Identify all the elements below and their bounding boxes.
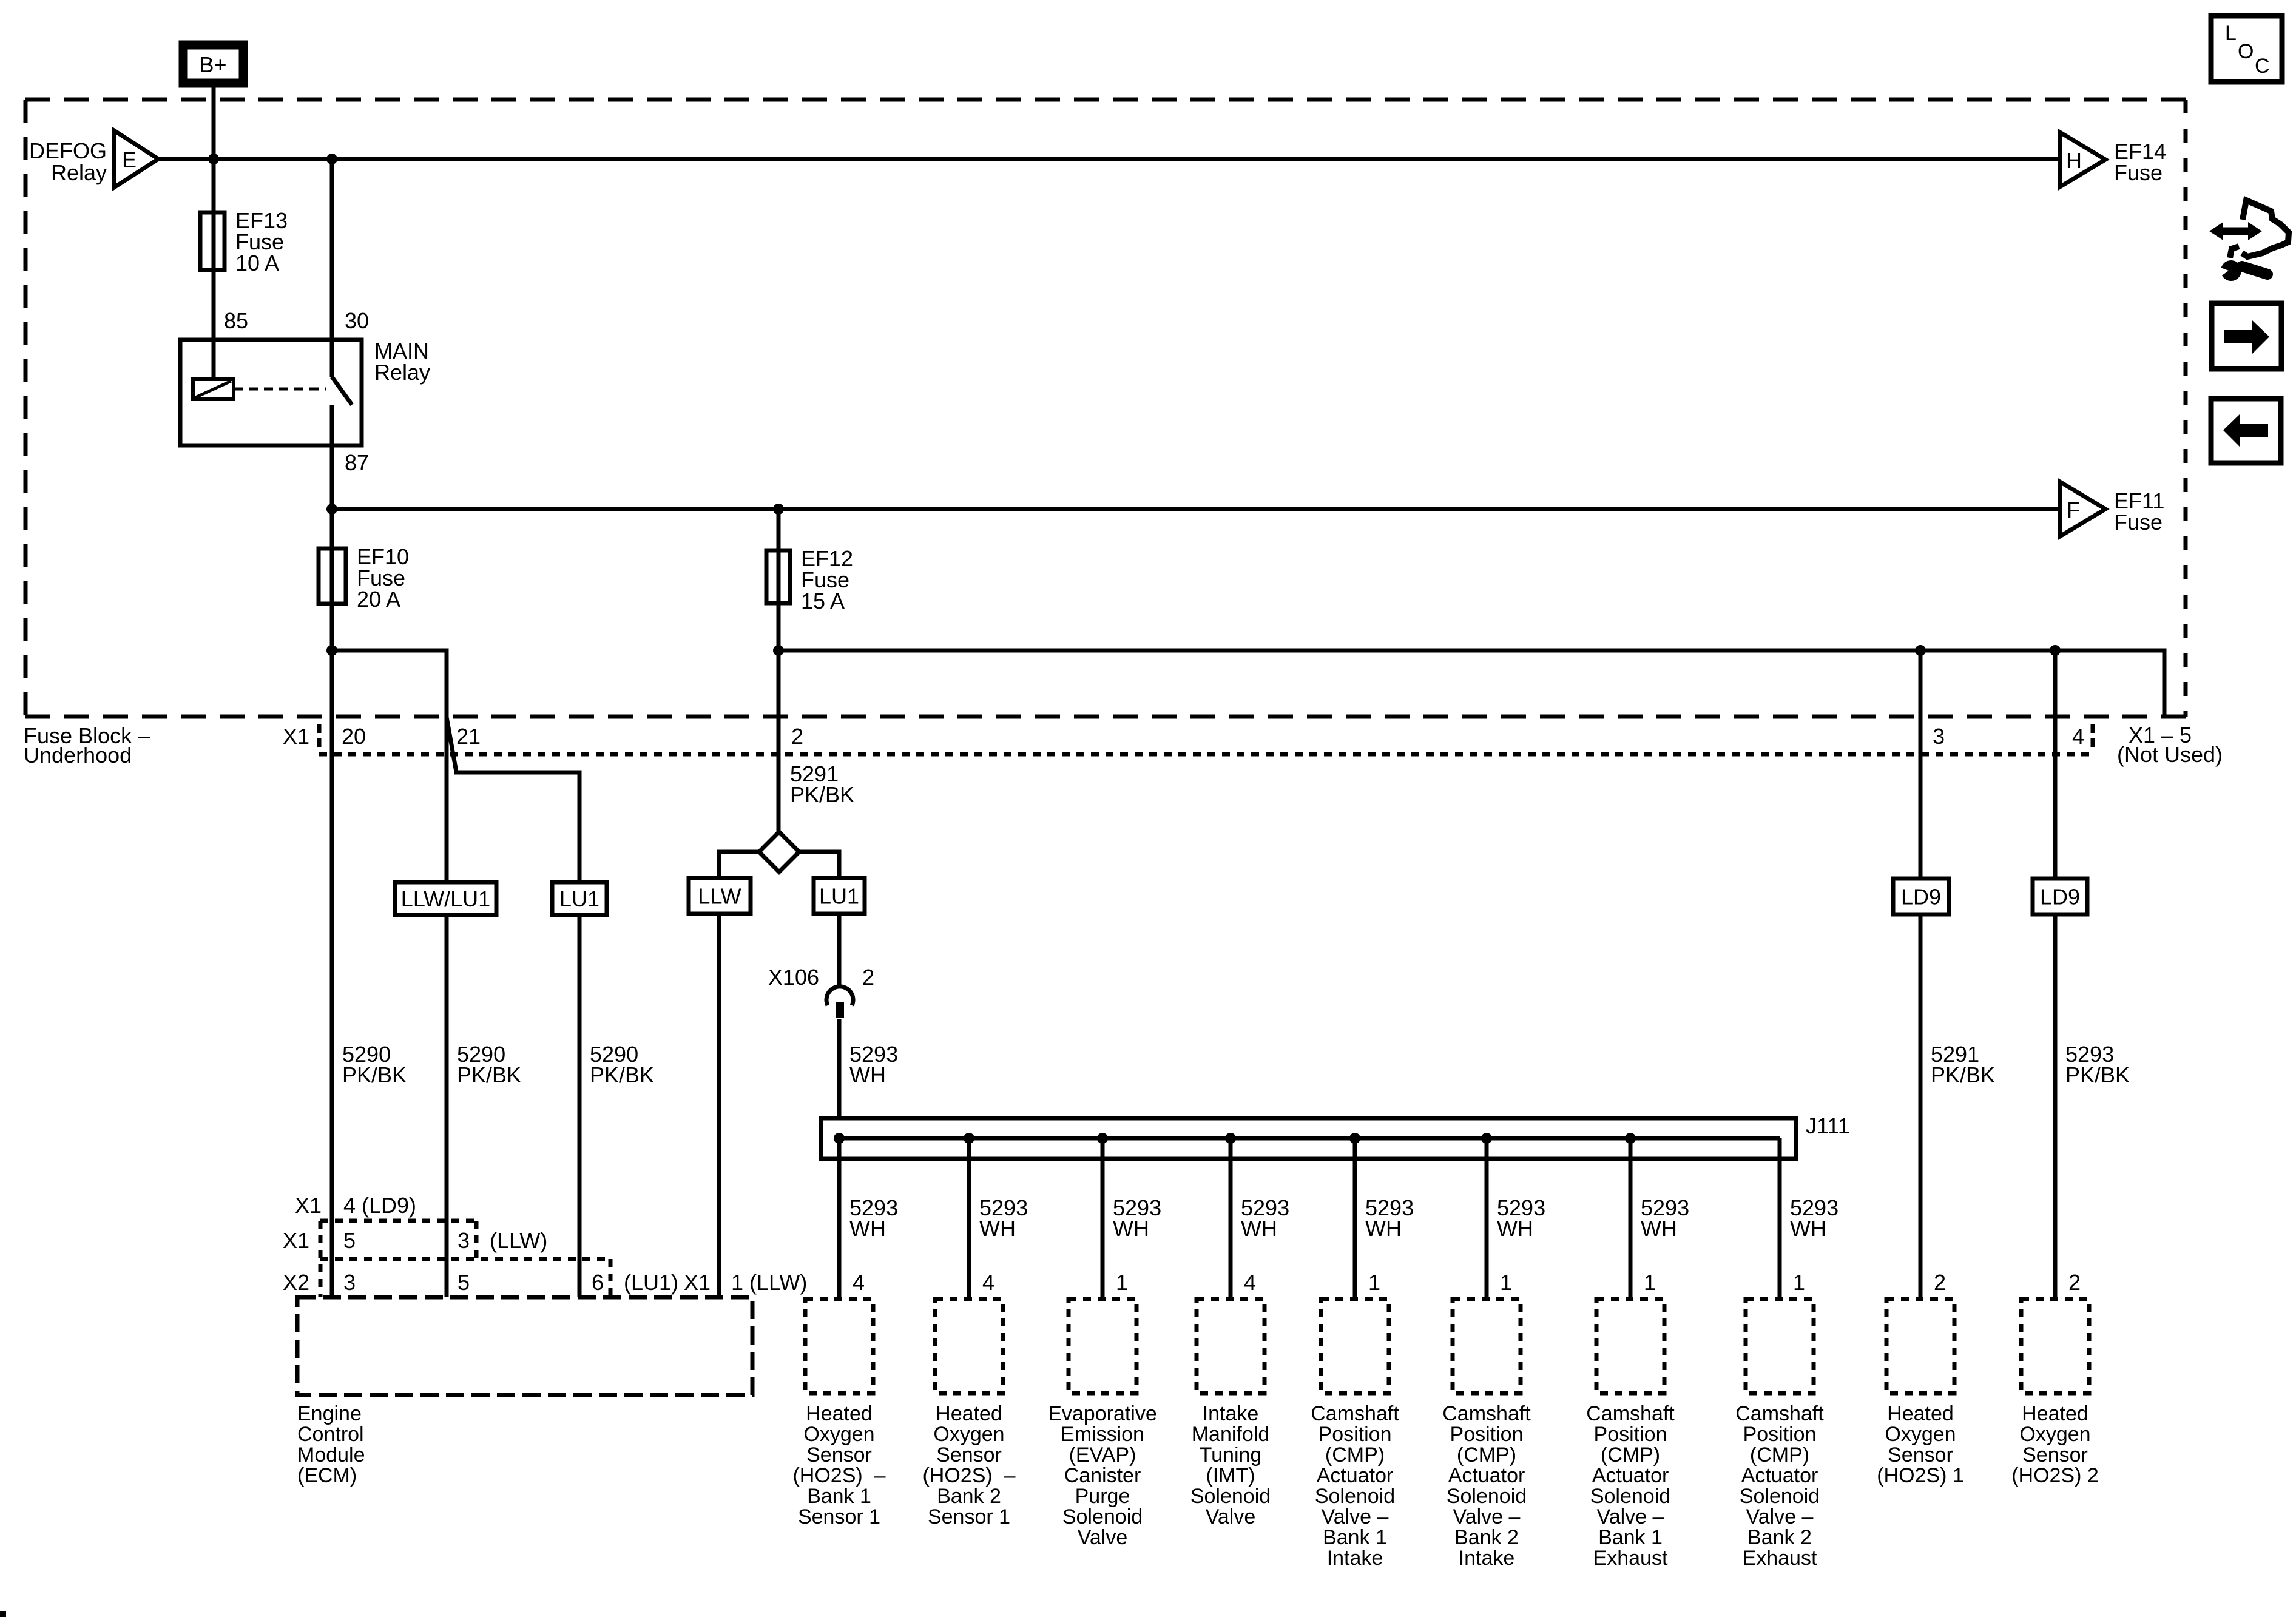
component CMP actuator bank2 intake <box>1442 1299 1531 1570</box>
svg-text:Valve: Valve <box>1078 1526 1128 1549</box>
node J111 tap 5 <box>1349 1133 1360 1144</box>
svg-text:Camshaft: Camshaft <box>1311 1402 1399 1425</box>
relay coil <box>193 379 234 399</box>
svg-text:PK/BK: PK/BK <box>590 1062 654 1087</box>
svg-text:Manifold: Manifold <box>1192 1423 1270 1446</box>
EF14 Fuse off-page reference H <box>2060 132 2166 187</box>
svg-text:Bank 1: Bank 1 <box>1323 1526 1387 1549</box>
svg-text:Actuator: Actuator <box>1317 1464 1394 1487</box>
svg-text:X106: X106 <box>768 965 819 990</box>
svg-text:PK/BK: PK/BK <box>2065 1062 2130 1087</box>
svg-text:Exhaust: Exhaust <box>1743 1547 1817 1570</box>
svg-text:1: 1 <box>1793 1270 1805 1295</box>
wire J111 tap at 2233 <box>1353 1138 1357 1299</box>
wire label LLW/LU1 <box>395 882 496 915</box>
wire J111 tap at 2450 <box>1485 1138 1489 1299</box>
svg-text:Actuator: Actuator <box>1741 1464 1818 1487</box>
wire label LLW <box>689 878 751 914</box>
svg-text:F: F <box>2067 498 2080 522</box>
wire J111 tap at 1597 <box>967 1138 971 1299</box>
svg-text:Evaporative: Evaporative <box>1048 1402 1157 1425</box>
svg-text:Heated: Heated <box>2022 1402 2088 1425</box>
svg-text:Oxygen: Oxygen <box>1885 1423 1956 1446</box>
wire B+ to relay coil pin 85 <box>212 87 216 379</box>
node J111 tap 1 <box>834 1133 845 1144</box>
component HO2S 2 <box>2011 1299 2099 1487</box>
svg-text:C: C <box>2255 55 2270 78</box>
svg-text:4 (LD9): 4 (LD9) <box>343 1193 416 1218</box>
svg-text:2: 2 <box>862 965 874 990</box>
component CMP actuator bank1 intake <box>1311 1299 1399 1570</box>
svg-text:Intake: Intake <box>1459 1547 1515 1570</box>
svg-text:4: 4 <box>2072 724 2084 749</box>
svg-text:3: 3 <box>343 1270 356 1295</box>
svg-text:WH: WH <box>1113 1216 1149 1241</box>
wire label 5290 PK/BK <box>590 1042 654 1087</box>
svg-text:Sensor: Sensor <box>1888 1443 1953 1467</box>
svg-text:85: 85 <box>224 308 248 333</box>
svg-text:Solenoid: Solenoid <box>1190 1485 1271 1508</box>
ECM connector rows <box>320 1221 610 1297</box>
hyperlink forward icon <box>2212 303 2281 369</box>
fuse EF12 15A <box>766 546 853 613</box>
svg-text:Actuator: Actuator <box>1592 1464 1669 1487</box>
node relay 30 tap <box>326 154 337 164</box>
svg-text:J111: J111 <box>1806 1113 1850 1138</box>
wire label 5293 WH <box>1497 1195 1545 1241</box>
svg-text:Solenoid: Solenoid <box>1740 1485 1820 1508</box>
svg-text:Camshaft: Camshaft <box>1586 1402 1675 1425</box>
svg-text:WH: WH <box>849 1216 886 1241</box>
svg-text:Exhaust: Exhaust <box>1593 1547 1668 1570</box>
wire splice to LLW <box>719 852 759 1297</box>
svg-text:O: O <box>2238 40 2254 63</box>
wire label 5293 PK/BK <box>2065 1042 2130 1087</box>
relay MAIN <box>180 308 430 475</box>
wire pin 21 double crimp diagonal <box>447 717 579 1297</box>
svg-text:Fuse: Fuse <box>2114 160 2163 185</box>
svg-text:Camshaft: Camshaft <box>1442 1402 1531 1425</box>
node EF10 output <box>326 645 337 656</box>
svg-text:Valve –: Valve – <box>1746 1505 1814 1528</box>
svg-text:15 A: 15 A <box>801 589 845 613</box>
svg-text:Solenoid: Solenoid <box>1590 1485 1670 1508</box>
ECM pin row X1-4 <box>295 1193 416 1218</box>
wire label 5290 PK/BK <box>342 1042 407 1087</box>
svg-text:5: 5 <box>458 1270 470 1295</box>
svg-text:Relay: Relay <box>374 360 430 385</box>
wire DEFOG relay to EF14 fuse <box>158 157 2060 161</box>
svg-text:L: L <box>2225 22 2237 45</box>
J111 internal bus bar <box>839 1136 1780 1141</box>
svg-text:Solenoid: Solenoid <box>1315 1485 1395 1508</box>
svg-text:Intake: Intake <box>1203 1402 1259 1425</box>
svg-text:PK/BK: PK/BK <box>342 1062 407 1087</box>
svg-text:X2: X2 <box>283 1270 309 1295</box>
wire pin 21 to LLW/LU1 and ECM X1-3 <box>445 717 449 1297</box>
svg-text:WH: WH <box>1241 1216 1277 1241</box>
svg-text:Heated: Heated <box>936 1402 1002 1425</box>
fuse block underhood dashed border <box>25 100 2186 717</box>
svg-text:Emission: Emission <box>1061 1423 1144 1446</box>
svg-text:LU1: LU1 <box>559 886 599 911</box>
svg-text:PK/BK: PK/BK <box>790 782 854 807</box>
wire label 5293 WH <box>1241 1195 1289 1241</box>
node EF12 tap <box>773 504 784 515</box>
hyperlink back icon <box>2211 399 2281 463</box>
wire label LU1 a <box>552 882 607 915</box>
EF11 Fuse off-page reference F <box>2060 482 2164 536</box>
svg-text:Oxygen: Oxygen <box>803 1423 874 1446</box>
wire J111 tap at 2687 <box>1629 1138 1633 1299</box>
node J111 tap 2 <box>964 1133 974 1144</box>
svg-text:Camshaft: Camshaft <box>1735 1402 1824 1425</box>
svg-text:3: 3 <box>1933 724 1945 749</box>
LOC reference box <box>2211 16 2282 82</box>
svg-text:Solenoid: Solenoid <box>1447 1485 1527 1508</box>
svg-text:Control: Control <box>297 1423 364 1446</box>
svg-text:6: 6 <box>592 1270 604 1295</box>
svg-text:1 (LLW): 1 (LLW) <box>731 1270 807 1295</box>
Engine Control Module box <box>297 1297 752 1395</box>
svg-text:Bank 2: Bank 2 <box>1747 1526 1812 1549</box>
ECM pin row X2 / X1-1 <box>283 1270 807 1295</box>
svg-text:Bank 1: Bank 1 <box>1598 1526 1663 1549</box>
svg-text:20: 20 <box>342 724 366 749</box>
svg-text:Valve –: Valve – <box>1453 1505 1521 1528</box>
svg-text:Solenoid: Solenoid <box>1062 1505 1143 1528</box>
svg-text:(ECM): (ECM) <box>297 1464 357 1487</box>
svg-text:WH: WH <box>849 1062 886 1087</box>
svg-text:87: 87 <box>345 450 369 475</box>
connector X1 separator <box>317 724 322 749</box>
component CMP actuator bank1 exhaust <box>1586 1299 1675 1570</box>
svg-text:PK/BK: PK/BK <box>1931 1062 1995 1087</box>
svg-text:X1: X1 <box>684 1270 711 1295</box>
short dash connector row line <box>319 752 2093 757</box>
svg-text:4: 4 <box>1244 1270 1256 1295</box>
wire label LD9 a <box>1893 879 1949 914</box>
wire J111 tap at 1383 <box>837 1138 842 1299</box>
pin X1-5 not used <box>2117 723 2223 767</box>
wire label 5293 WH <box>849 1195 898 1241</box>
svg-text:Underhood: Underhood <box>24 743 132 768</box>
svg-text:Purge: Purge <box>1075 1485 1130 1508</box>
svg-text:Sensor: Sensor <box>806 1443 872 1467</box>
svg-text:Module: Module <box>297 1443 365 1467</box>
svg-text:(HO2S) –: (HO2S) – <box>792 1464 885 1487</box>
wire label LD9 b <box>2033 879 2087 914</box>
svg-text:H: H <box>2066 148 2082 173</box>
wire J111 tap at 1817 <box>1101 1138 1105 1299</box>
wire label 5293 WH <box>1790 1195 1838 1241</box>
ECM pin row X1-5 / X1-3 <box>283 1228 547 1253</box>
svg-text:LU1: LU1 <box>819 884 859 909</box>
svg-text:WH: WH <box>979 1216 1016 1241</box>
wire label 5293 WH <box>849 1042 898 1087</box>
wire to relay pin 30 <box>330 159 334 377</box>
node pin 3 tap <box>1915 645 1926 656</box>
service info icon (vehicle outline, double arrow, wrench) <box>2209 200 2289 281</box>
svg-text:1: 1 <box>1368 1270 1380 1295</box>
wire label LU1 b <box>814 878 865 914</box>
wire EF12 output to pins 3 and 4 <box>778 650 2164 717</box>
svg-text:1: 1 <box>1116 1270 1128 1295</box>
svg-text:(CMP): (CMP) <box>1601 1443 1660 1467</box>
svg-text:(LLW): (LLW) <box>490 1228 547 1253</box>
svg-text:Position: Position <box>1594 1423 1667 1446</box>
svg-text:5: 5 <box>343 1228 356 1253</box>
svg-text:Bank 2: Bank 2 <box>937 1485 1001 1508</box>
svg-text:(EVAP): (EVAP) <box>1069 1443 1136 1467</box>
node J111 tap 4 <box>1225 1133 1236 1144</box>
svg-text:4: 4 <box>853 1270 865 1295</box>
svg-text:WH: WH <box>1790 1216 1826 1241</box>
svg-text:4: 4 <box>982 1270 994 1295</box>
svg-text:LD9: LD9 <box>2040 885 2080 910</box>
wire EF11 feed <box>332 507 2060 511</box>
wire J111 last tap <box>1778 1138 1782 1299</box>
svg-text:Valve: Valve <box>1206 1505 1256 1528</box>
wire pin 4 to HO2S 2 <box>2053 650 2058 1299</box>
svg-text:Heated: Heated <box>1887 1402 1954 1425</box>
svg-text:WH: WH <box>1365 1216 1402 1241</box>
svg-text:Valve –: Valve – <box>1597 1505 1664 1528</box>
in-line connector X106 pin 2 <box>768 965 874 1018</box>
svg-text:WH: WH <box>1641 1216 1677 1241</box>
svg-text:X1: X1 <box>283 724 309 749</box>
svg-text:2: 2 <box>791 724 803 749</box>
svg-text:Fuse: Fuse <box>2114 510 2163 535</box>
wire label 5293 WH <box>979 1195 1028 1241</box>
svg-text:Intake: Intake <box>1327 1547 1383 1570</box>
wire label 5293 WH <box>1641 1195 1689 1241</box>
page corner mark <box>0 1611 6 1617</box>
wire label 5291 PK/BK <box>1931 1042 1995 1087</box>
svg-text:Sensor: Sensor <box>936 1443 1002 1467</box>
svg-text:30: 30 <box>345 308 369 333</box>
wire splice to LU1 and X106 <box>799 852 839 986</box>
wire J111 tap at 2028 <box>1229 1138 1233 1299</box>
fuse block name <box>24 723 150 768</box>
svg-text:Sensor: Sensor <box>2022 1443 2088 1467</box>
component HO2S 1 <box>1877 1299 1964 1487</box>
svg-text:Relay: Relay <box>51 160 107 185</box>
svg-text:(HO2S) 1: (HO2S) 1 <box>1877 1464 1964 1487</box>
pin labels X1 row <box>283 724 2084 749</box>
svg-text:LD9: LD9 <box>1901 885 1941 910</box>
svg-text:X1: X1 <box>295 1193 322 1218</box>
component HO2S bank1 sensor1 <box>792 1299 885 1528</box>
svg-text:Sensor 1: Sensor 1 <box>928 1505 1010 1528</box>
svg-text:Position: Position <box>1319 1423 1392 1446</box>
svg-text:LLW: LLW <box>698 884 741 909</box>
fuse EF10 20A <box>319 544 409 612</box>
wire relay pin 87 down through EF10 to ECM pin 20 <box>330 405 334 1297</box>
ECM name <box>297 1402 365 1487</box>
wire EF10 branch to pin 21 <box>332 650 447 717</box>
component EVAP purge solenoid <box>1048 1299 1157 1549</box>
wire X106 to J111 <box>837 1019 842 1138</box>
splice diamond <box>759 832 799 872</box>
svg-text:20 A: 20 A <box>357 587 400 612</box>
node J111 tap 7 <box>1625 1133 1636 1144</box>
wire label 5293 WH <box>1113 1195 1161 1241</box>
svg-text:Actuator: Actuator <box>1448 1464 1525 1487</box>
svg-text:Oxygen: Oxygen <box>2019 1423 2090 1446</box>
svg-text:Position: Position <box>1450 1423 1524 1446</box>
svg-text:(CMP): (CMP) <box>1750 1443 1809 1467</box>
svg-text:(HO2S) 2: (HO2S) 2 <box>2011 1464 2099 1487</box>
node relay 87 / EF11 wire <box>326 504 337 515</box>
svg-text:3: 3 <box>458 1228 470 1253</box>
svg-text:(Not Used): (Not Used) <box>2117 742 2223 767</box>
node J111 tap 6 <box>1481 1133 1492 1144</box>
node J111 tap 3 <box>1097 1133 1108 1144</box>
component HO2S bank2 sensor1 <box>922 1299 1015 1528</box>
pin X1-5 separator <box>2091 724 2095 749</box>
wire label 5293 WH <box>1365 1195 1414 1241</box>
svg-text:Bank 2: Bank 2 <box>1454 1526 1519 1549</box>
svg-text:WH: WH <box>1497 1216 1533 1241</box>
svg-text:(HO2S) –: (HO2S) – <box>922 1464 1015 1487</box>
node B+ feed / DEFOG wire <box>208 154 219 164</box>
svg-text:Oxygen: Oxygen <box>933 1423 1004 1446</box>
svg-text:2: 2 <box>1934 1270 1946 1295</box>
svg-text:Sensor 1: Sensor 1 <box>798 1505 880 1528</box>
battery feed B+ <box>183 45 243 83</box>
wire 5291 PK/BK from pin 2 <box>790 761 854 807</box>
svg-text:Position: Position <box>1743 1423 1817 1446</box>
splice pack J111 <box>821 1113 1850 1159</box>
svg-text:(CMP): (CMP) <box>1457 1443 1516 1467</box>
svg-text:21: 21 <box>456 724 481 749</box>
svg-text:Heated: Heated <box>806 1402 873 1425</box>
svg-text:(IMT): (IMT) <box>1206 1464 1255 1487</box>
svg-text:Valve –: Valve – <box>1322 1505 1389 1528</box>
svg-text:(LU1): (LU1) <box>624 1270 678 1295</box>
svg-text:10 A: 10 A <box>235 251 279 275</box>
svg-text:PK/BK: PK/BK <box>457 1062 521 1087</box>
svg-text:B+: B+ <box>199 52 226 77</box>
svg-text:X1: X1 <box>283 1228 309 1253</box>
svg-text:1: 1 <box>1500 1270 1512 1295</box>
svg-text:Engine: Engine <box>297 1402 362 1425</box>
component IMT solenoid valve <box>1190 1299 1271 1528</box>
wire EF12 feed down to splice <box>777 509 781 832</box>
fuse EF13 10A <box>200 208 288 275</box>
svg-text:DEFOG: DEFOG <box>29 138 107 163</box>
svg-text:LLW/LU1: LLW/LU1 <box>401 886 490 911</box>
svg-text:(CMP): (CMP) <box>1325 1443 1385 1467</box>
node EF12 output <box>773 645 784 656</box>
svg-text:Bank 1: Bank 1 <box>807 1485 871 1508</box>
relay switch blade <box>332 377 352 405</box>
svg-text:1: 1 <box>1644 1270 1656 1295</box>
svg-text:Canister: Canister <box>1064 1464 1141 1487</box>
svg-text:E: E <box>122 147 137 172</box>
wire label 5290 PK/BK <box>457 1042 521 1087</box>
wire pin 3 to HO2S 1 <box>1919 650 1923 1299</box>
DEFOG Relay off-page reference E <box>29 130 158 187</box>
node pin 4 tap <box>2050 645 2061 656</box>
component CMP actuator bank2 exhaust <box>1735 1299 1824 1570</box>
svg-text:Tuning: Tuning <box>1200 1443 1262 1467</box>
svg-text:2: 2 <box>2068 1270 2081 1295</box>
